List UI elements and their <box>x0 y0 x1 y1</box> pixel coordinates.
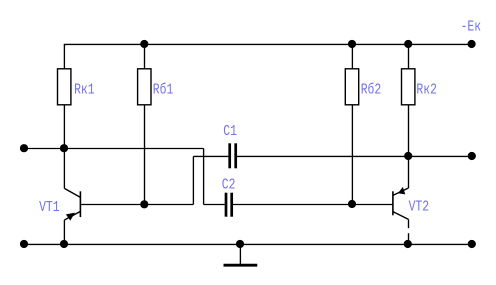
capacitor C1 <box>230 143 236 168</box>
VT1 emitter diagonal <box>64 211 80 220</box>
VT2 base bar <box>392 191 394 215</box>
transistor VT2 <box>393 156 409 244</box>
node top rail / Rб2 <box>348 40 356 48</box>
svg-text:-Eк: -Eк <box>461 18 482 35</box>
node top rail / Rб1 <box>140 40 148 48</box>
resistor Rк2 <box>402 69 415 105</box>
node bottom right terminal <box>468 240 476 248</box>
transistor VT1 <box>64 188 80 244</box>
node VT2 base / Rб2 junction <box>348 200 356 208</box>
ground <box>224 244 258 265</box>
node top rail / Rк2 <box>404 40 412 48</box>
VT2 collector diagonal <box>393 188 409 195</box>
resistor Rк1 <box>58 69 71 105</box>
resistor Rб2 <box>345 69 358 105</box>
wire C2 left lead <box>204 204 225 206</box>
node right terminal mid <box>468 152 476 160</box>
VT1 emitter arrow <box>66 213 75 221</box>
svg-text:C1: C1 <box>223 123 237 140</box>
VT1 collector diagonal <box>64 188 80 197</box>
wire top supply rail <box>64 43 472 45</box>
wire jog down from collector rail to C2 <box>203 149 205 205</box>
wire C2 right lead to VT2 base node <box>233 204 352 206</box>
VT2 collector wire down <box>408 156 410 188</box>
VT2 collector arrow <box>398 187 405 195</box>
svg-text:Rб1: Rб1 <box>153 81 174 98</box>
node VT1 base / Rб1 junction <box>140 200 148 208</box>
node ground junction <box>236 240 244 248</box>
VT2 emitter wire segment lower <box>408 233 410 244</box>
svg-text:C2: C2 <box>222 176 236 193</box>
wire Rб1 bottom to VT1 base line <box>144 105 146 205</box>
VT1 base bar <box>79 191 81 217</box>
node VT2 collector junction <box>404 152 412 160</box>
wire VT1 base line <box>80 204 193 206</box>
wire C1 right lead to right rail <box>237 155 472 157</box>
svg-text:VT1: VT1 <box>39 198 60 215</box>
node VT1 collector junction <box>60 144 68 152</box>
wire jog up from VT1 base to C1 <box>192 156 194 204</box>
wire Rк2 bottom to VT2 collector node <box>408 105 410 157</box>
svg-text:Rк1: Rк1 <box>74 81 95 98</box>
svg-text:Rк2: Rк2 <box>416 81 437 98</box>
resistor Rб1 <box>138 69 151 105</box>
VT2 emitter diagonal <box>393 212 409 220</box>
wire VT2 base line <box>352 204 393 206</box>
wire left output rail (VT1 collector node) <box>24 148 204 150</box>
wire C1 left lead <box>193 155 228 157</box>
svg-text:VT2: VT2 <box>409 198 430 215</box>
VT2 emitter wire segment upper <box>408 219 410 228</box>
ground stub <box>239 244 241 264</box>
node VT1 emitter junction <box>60 240 68 248</box>
wire Rб2 bottom to VT2 base <box>351 105 353 205</box>
wire Rк1 top stub <box>63 44 65 68</box>
node left terminal mid <box>20 144 28 152</box>
wire Rк1 bottom to VT1 collector <box>63 105 65 189</box>
wire Rб1 top stub <box>144 44 146 68</box>
VT1 emitter wire down <box>63 220 65 244</box>
svg-text:Rб2: Rб2 <box>361 81 382 98</box>
wire Rб2 top stub <box>351 44 353 68</box>
node bottom left terminal <box>20 240 28 248</box>
node VT2 emitter junction <box>404 240 412 248</box>
ground bar <box>224 264 258 267</box>
wire Rк2 top stub <box>408 44 410 68</box>
capacitor C2 <box>226 193 232 217</box>
wire bottom rail <box>24 243 472 245</box>
node top rail right terminal <box>468 40 476 48</box>
